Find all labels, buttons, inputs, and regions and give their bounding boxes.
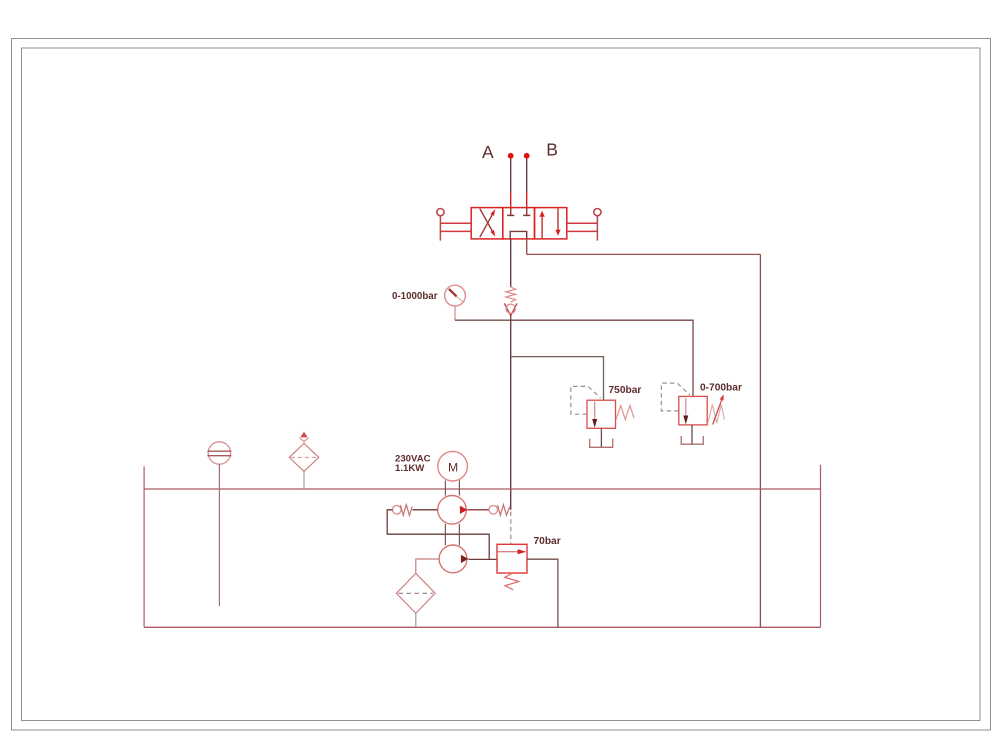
- tank T1 top line: [144, 488, 820, 490]
- wire 70bar outlet to tank: [527, 559, 558, 627]
- pump P2: [439, 545, 467, 573]
- tank T1 bottom line: [144, 626, 820, 628]
- check valve CV2 left: [393, 506, 402, 515]
- 70bar pilot dashed line: [510, 512, 512, 545]
- 70bar spring below: [505, 573, 519, 590]
- wire CV1 to junction: [510, 316, 512, 320]
- svg-text:1.1KW: 1.1KW: [395, 463, 425, 474]
- valve centre box closed port B: [523, 214, 530, 216]
- relief valve RV2 0-700bar body: [679, 396, 707, 425]
- RV1 tank symbol: [590, 439, 613, 448]
- wire gauge stem: [454, 306, 456, 320]
- wire T return stub: [526, 239, 528, 255]
- breather stem: [303, 471, 305, 489]
- motor-pump shaft: [445, 480, 459, 495]
- wire gauge to main line: [455, 319, 511, 321]
- RV1 tank outlet stem: [600, 428, 602, 447]
- wire pump P1 outlet: [467, 509, 489, 511]
- RV2 tank symbol: [681, 436, 703, 444]
- wire T return horizontal: [527, 253, 761, 255]
- check valve CV3 right: [489, 506, 498, 515]
- wire A to valve: [510, 159, 512, 216]
- filter stem to tank: [415, 613, 417, 627]
- wire pump P2 suction: [416, 559, 439, 573]
- check valve CV1 spring: [506, 287, 516, 302]
- wire main pressure line down: [510, 320, 512, 510]
- valve right box down arrow: [555, 208, 560, 235]
- svg-text:0-1000bar: 0-1000bar: [392, 291, 438, 302]
- valve centre box closed port A: [507, 214, 514, 216]
- svg-text:750bar: 750bar: [609, 385, 642, 396]
- wire B to valve: [526, 159, 528, 216]
- check valve CV1 seat: [504, 303, 517, 315]
- tank T1 left wall: [143, 467, 145, 628]
- RV1 flow arrow: [592, 402, 597, 428]
- node A port dot: [508, 153, 514, 159]
- valve left lever: [437, 209, 444, 216]
- RV2 tank outlet stem: [691, 425, 693, 444]
- node B port dot: [524, 153, 530, 159]
- pump P1: [438, 496, 467, 525]
- unloading valve 70bar body: [497, 544, 527, 573]
- level gauge LG1: [208, 442, 230, 464]
- pump shaft P1-P2: [445, 524, 459, 545]
- RV2 spring: [708, 405, 725, 424]
- valve right lever: [594, 209, 601, 216]
- breather B1 top arrow: [300, 432, 307, 438]
- wire pump P2 outlet to 70bar valve: [468, 558, 497, 560]
- svg-text:70bar: 70bar: [534, 536, 561, 547]
- RV1 pilot dashed line: [571, 386, 601, 414]
- directional valve V1 4/3 body: [471, 208, 567, 239]
- svg-text:A: A: [482, 142, 494, 162]
- wire junction to RV1 750bar: [511, 357, 604, 401]
- electric motor M1: [438, 451, 468, 481]
- suction filter F1: [396, 573, 435, 613]
- tank T1 right wall: [820, 465, 822, 628]
- svg-text:B: B: [546, 140, 558, 160]
- wire CV2 loop from P2 outlet: [387, 510, 489, 560]
- relief valve RV1 750bar body: [587, 400, 616, 428]
- wire junction to RV2 0-700bar: [511, 320, 693, 396]
- breather B1 filter diamond: [289, 443, 319, 471]
- wire CV2 to pump P1: [412, 509, 437, 511]
- RV2 adjust arrow: [713, 394, 724, 424]
- check valve CV1 ball: [506, 304, 515, 313]
- 70bar valve flow arrow: [498, 549, 527, 554]
- pressure gauge PG1: [445, 285, 466, 306]
- valve left box crossed arrows: [480, 209, 496, 238]
- valve centre box P-T bridge: [510, 231, 527, 239]
- RV2 flow arrow: [683, 398, 688, 424]
- svg-text:M: M: [448, 460, 458, 474]
- RV2 pilot dashed line: [661, 383, 690, 411]
- level gauge stem: [218, 464, 220, 606]
- wire T return vertical to tank: [759, 254, 761, 627]
- valve left lever linkage lines: [440, 223, 471, 231]
- RV1 spring: [616, 406, 634, 420]
- svg-text:0-700bar: 0-700bar: [700, 382, 742, 393]
- valve right lever linkage lines: [567, 223, 598, 231]
- wire P line valve to check valve: [510, 239, 512, 287]
- valve right box up arrow: [539, 211, 544, 238]
